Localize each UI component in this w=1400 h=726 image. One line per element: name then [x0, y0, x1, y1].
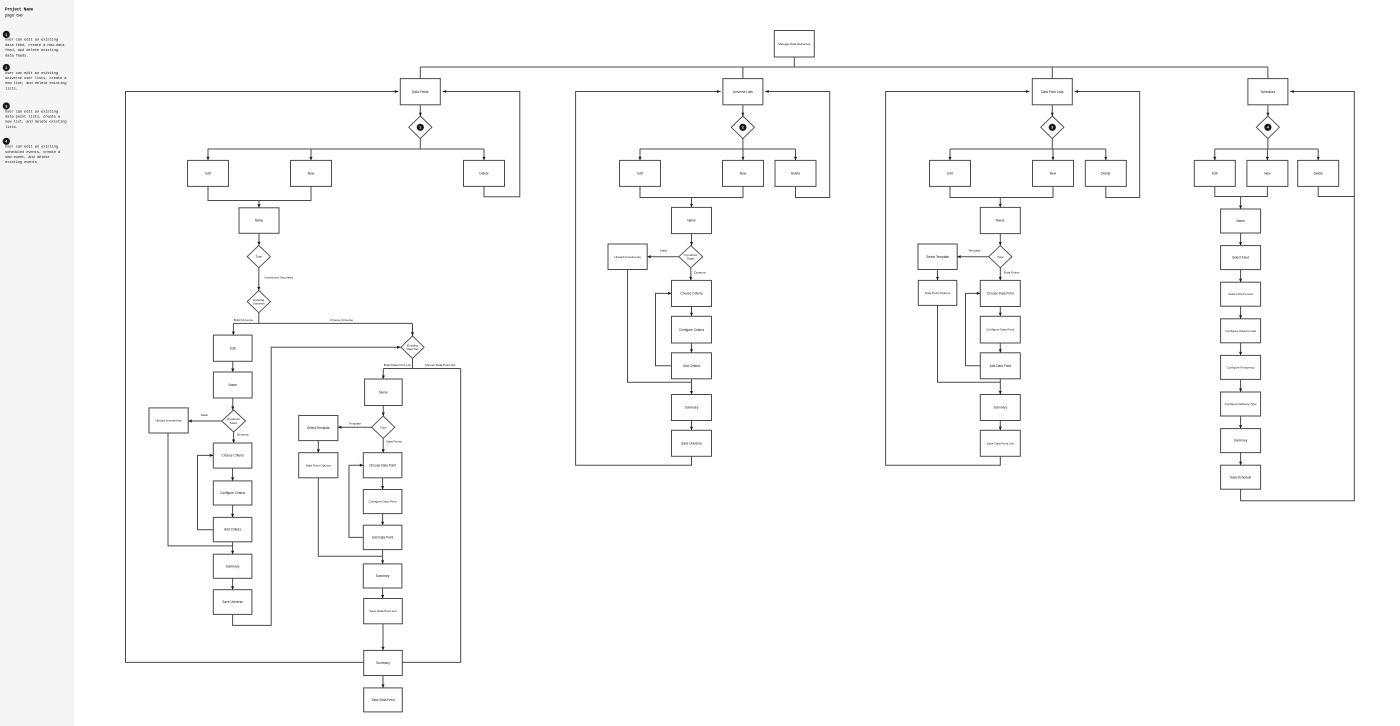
- sidebar note marker 4: [3, 138, 9, 144]
- svg-text:Summary: Summary: [376, 574, 390, 578]
- box: Summary B2: [672, 395, 712, 421]
- box: Choose Criteria B2: [672, 280, 712, 306]
- box: Choose Criteria B1: [213, 443, 252, 468]
- box: Select Template B3: [918, 244, 957, 270]
- decision: Type dpl B1: [372, 416, 395, 438]
- box: Save Data Feed B1: [364, 688, 403, 712]
- wire: universe split bar: [233, 322, 412, 324]
- svg-text:Configure Criteria: Configure Criteria: [679, 328, 704, 332]
- wire: Template to Select Template B1: [338, 426, 372, 429]
- box: New B3: [1033, 160, 1074, 186]
- wire: merge B3 to Name: [999, 198, 1002, 208]
- wire: Data Point Lists to decision B3: [1051, 105, 1054, 116]
- decision: Existing Data Set: [401, 336, 424, 359]
- edge label: Choose Universe: [330, 318, 353, 322]
- svg-text:Type: Type: [255, 255, 262, 259]
- wire: diamond B2 down: [742, 139, 744, 149]
- svg-text:Data Point Options: Data Point Options: [925, 291, 951, 295]
- wire: Existing Data Set down: [412, 359, 414, 369]
- svg-text:data feeds.: data feeds.: [5, 53, 28, 58]
- svg-text:Edit: Edit: [637, 172, 643, 176]
- box: Edit B2: [620, 160, 661, 186]
- wire: to Edit universe: [232, 323, 235, 335]
- wire: Name dpl to Type: [382, 406, 385, 417]
- wire: New B4 merge: [1241, 186, 1268, 196]
- box: Name universe B1: [213, 372, 252, 398]
- svg-text:new list, and delete existing: new list, and delete existing: [5, 120, 66, 125]
- wire: Delete B2 loop back right: [765, 90, 830, 198]
- decision: Type B1: [247, 245, 270, 267]
- svg-text:existing events.: existing events.: [5, 160, 39, 165]
- box: Summary B3: [980, 395, 1020, 421]
- svg-text:User can edit an existing: User can edit an existing: [5, 145, 58, 150]
- svg-text:Build Data Point List: Build Data Point List: [384, 363, 411, 367]
- edge label: Template B3: [968, 249, 981, 253]
- box: Summary bottom B1: [364, 650, 403, 675]
- edge label: Template B1: [349, 422, 362, 426]
- wire: Configure to Add Data Point B1: [381, 514, 384, 526]
- svg-text:Configure Criteria: Configure Criteria: [220, 491, 245, 495]
- box: Summary dpl B1: [363, 564, 402, 588]
- svg-text:Select Template: Select Template: [307, 426, 330, 430]
- wire: Add Criteria to Summary B1: [231, 542, 234, 554]
- wire: chain B4 to Configure Frequency: [1239, 343, 1242, 356]
- wire: to New B4: [1266, 149, 1269, 160]
- wire: Add Criteria loop B1: [198, 454, 214, 530]
- wire: Add Data Point loop B1: [349, 464, 363, 538]
- box: Configure Criteria B1: [213, 481, 252, 505]
- edge label: Choose Data Point List: [425, 363, 456, 367]
- wire: Summary to Save Universe B1: [231, 578, 234, 589]
- edge label: Data Points B1: [386, 440, 402, 444]
- marker 3 in diamond B3: [1049, 124, 1055, 130]
- box: Upload Investments B2: [608, 244, 647, 270]
- box: Summary B4: [1221, 429, 1261, 453]
- decision diamond B3: [1041, 116, 1064, 139]
- svg-text:New: New: [1050, 172, 1057, 176]
- wire: to Edit B2: [639, 149, 642, 160]
- box: Edit B1: [188, 160, 229, 186]
- svg-text:Save Data Point List: Save Data Point List: [987, 441, 1014, 445]
- wire: Name B2 to Dynamic/Static: [690, 234, 693, 246]
- wire: diamond B1 down: [419, 139, 421, 149]
- wire: Summary bottom loop back to Data Feeds left: [126, 90, 399, 662]
- svg-text:Data Point Lists: Data Point Lists: [1041, 90, 1064, 94]
- svg-text:new list, and delete existing: new list, and delete existing: [5, 81, 66, 86]
- wire: Summary to Save Universe B2: [690, 421, 693, 431]
- svg-text:Edit: Edit: [947, 172, 953, 176]
- edge label: Build Data Point List: [384, 363, 411, 367]
- box: New B4: [1247, 160, 1288, 186]
- sidebar note 2 text: [5, 71, 67, 92]
- svg-text:Configure Data Point: Configure Data Point: [986, 328, 1014, 332]
- wire: Name B1 to Type: [257, 233, 260, 245]
- wire: Choose to Configure Data Point B1: [381, 478, 384, 490]
- svg-text:Edit: Edit: [1212, 172, 1218, 176]
- box: Name dpl B1: [365, 379, 403, 406]
- wire: trunk drop to Data Feeds: [419, 67, 421, 79]
- svg-text:Choose Criteria: Choose Criteria: [680, 292, 702, 296]
- svg-text:Choose Data Point List: Choose Data Point List: [425, 363, 456, 367]
- box: Save Data Point List B3: [980, 430, 1020, 456]
- svg-text:data point lists, create a: data point lists, create a: [5, 115, 61, 120]
- svg-text:New: New: [308, 172, 315, 176]
- box: Configure Data Point B1: [363, 490, 402, 514]
- wire: Edit B4 merge: [1215, 186, 1241, 196]
- box: Data Point Options B3: [918, 280, 957, 305]
- svg-text:feed, and delete existing: feed, and delete existing: [5, 48, 58, 53]
- wire: Choose Universe drop: [411, 323, 414, 335]
- svg-text:Choose Universe: Choose Universe: [330, 318, 353, 322]
- decision diamond B4: [1256, 116, 1279, 139]
- svg-text:Data Points: Data Points: [386, 440, 402, 444]
- edge label: Static B1: [201, 413, 209, 417]
- box: Select Template B1: [299, 416, 338, 441]
- svg-text:1: 1: [419, 126, 421, 130]
- wire: New B3 merge: [1000, 186, 1053, 197]
- svg-text:Delete: Delete: [791, 172, 800, 176]
- wire: split bar B2: [640, 148, 796, 150]
- svg-text:Dynamic: Dynamic: [237, 432, 249, 436]
- svg-text:lists.: lists.: [5, 86, 18, 91]
- svg-text:lists.: lists.: [5, 125, 18, 130]
- wire: Edit B2 merge: [640, 186, 692, 197]
- box: Manage Data Deliveries: [774, 31, 814, 58]
- box: Name B4: [1221, 209, 1261, 233]
- svg-text:Name: Name: [379, 390, 388, 394]
- wire: Edit universe to Name: [231, 361, 234, 372]
- wire: to New B3: [1052, 149, 1055, 160]
- box: Universe Lists: [723, 79, 763, 105]
- box: Name B2: [672, 207, 712, 233]
- svg-text:Data Points: Data Points: [1004, 271, 1020, 275]
- wire: trunk drop to Data Point Lists: [1051, 67, 1053, 79]
- wire: Save Data Point List B3 loop back left: [886, 90, 1030, 465]
- svg-text:Select Template: Select Template: [926, 255, 949, 259]
- wire: chain B4 to Configure Delivery Type: [1239, 379, 1242, 392]
- svg-text:Add Criteria: Add Criteria: [683, 364, 700, 368]
- svg-text:Select Feed: Select Feed: [1232, 256, 1249, 260]
- wire: Data Points to Choose Data Point B3: [999, 268, 1002, 281]
- wire: Data Feeds to decision B1: [419, 105, 422, 116]
- wire: Static to Upload Investments B1: [188, 419, 222, 422]
- svg-text:new event, and delete: new event, and delete: [5, 155, 50, 160]
- wire: Choose to Configure Criteria B2: [690, 307, 693, 317]
- marker 4 in diamond B4: [1265, 124, 1271, 130]
- svg-text:Name: Name: [1236, 219, 1245, 223]
- wire: diamond B4 down: [1267, 139, 1269, 149]
- svg-text:New: New: [1264, 172, 1271, 176]
- wire: split bar B3: [950, 148, 1106, 150]
- sidebar note 3 text: [5, 109, 66, 130]
- wire: Save Universe loop to Existing Data Set: [233, 346, 401, 626]
- svg-text:Name: Name: [687, 219, 696, 223]
- wire: Schedules to decision B4: [1266, 105, 1269, 116]
- box: Add Criteria B2: [672, 353, 712, 379]
- box: Delete B4: [1298, 160, 1339, 186]
- wire: Save Universe B2 loop back to Universe Lists left: [576, 90, 721, 465]
- sidebar background: [0, 0, 74, 726]
- wire: diamond B3 down: [1051, 139, 1053, 149]
- svg-text:Name: Name: [996, 219, 1005, 223]
- svg-text:User can edit an existing: User can edit an existing: [5, 38, 58, 43]
- svg-text:Configure Data Format: Configure Data Format: [1225, 329, 1256, 333]
- wire: Choose Data Point List path: [402, 369, 460, 663]
- svg-text:User can edit an existing: User can edit an existing: [5, 71, 58, 76]
- box: Choose Data Point B1: [363, 453, 402, 478]
- svg-text:Type: Type: [380, 425, 387, 429]
- svg-text:Save Schedule: Save Schedule: [1230, 475, 1252, 479]
- wire: Summary to Save Data Point List B3: [999, 421, 1002, 431]
- wire: to Edit B4: [1213, 149, 1216, 160]
- svg-text:Select File Format: Select File Format: [1228, 292, 1253, 296]
- marker 1 in diamond B1: [417, 124, 423, 130]
- edge label: Data Points B3: [1004, 271, 1020, 275]
- box: Edit B3: [930, 160, 971, 186]
- box: Edit universe B1: [213, 335, 252, 361]
- box: Name B3: [980, 207, 1020, 233]
- wire: Upload Investments join B1: [168, 433, 233, 546]
- box: Configure Data Format B4: [1221, 319, 1261, 343]
- svg-text:Data Set: Data Set: [406, 347, 418, 351]
- decision: Type B3: [989, 246, 1012, 268]
- svg-text:Template: Template: [349, 422, 362, 426]
- box: Configure Frequency B4: [1221, 355, 1261, 379]
- svg-text:Type: Type: [997, 255, 1004, 259]
- decision: Dynamic/Static B2: [679, 246, 703, 268]
- svg-text:Summary: Summary: [993, 406, 1007, 410]
- wire: Add Criteria loop B2: [656, 292, 672, 366]
- wire: merge B2 to Name: [690, 198, 693, 208]
- wire: Save Data Point List to Summary bottom: [381, 624, 384, 651]
- wire: trunk drop to Schedules: [1267, 67, 1269, 79]
- wire: Upload Investments join B2: [628, 270, 692, 383]
- box: Configure Data Point B3: [980, 316, 1020, 343]
- edge label: Investment Securities: [265, 276, 294, 280]
- wire: Dynamic to Choose Criteria B2: [689, 268, 692, 281]
- svg-text:Summary: Summary: [1234, 439, 1248, 443]
- svg-text:Dynamic: Dynamic: [694, 271, 706, 275]
- box: Add Data Point B1: [363, 525, 402, 549]
- edge label: Static B2: [660, 249, 668, 253]
- sidebar note marker 2: [3, 64, 9, 70]
- wire: to New B2: [742, 149, 745, 160]
- wire: Edit B3 merge: [950, 186, 1000, 197]
- svg-text:4: 4: [1267, 126, 1269, 130]
- wire: merge B1 to Name: [257, 201, 260, 208]
- box: New B1: [291, 160, 332, 186]
- svg-text:Delete: Delete: [1314, 172, 1323, 176]
- svg-text:Summary: Summary: [226, 564, 240, 568]
- svg-text:Delete: Delete: [479, 172, 488, 176]
- sidebar note marker 3: [3, 103, 9, 109]
- svg-text:Data Point Options: Data Point Options: [306, 463, 332, 467]
- wire: trunk horizontal: [420, 66, 1268, 68]
- svg-text:Edit: Edit: [230, 346, 236, 350]
- box: Delete B2: [775, 160, 816, 186]
- edge label: Dynamic B1: [237, 432, 249, 436]
- wire: New B2 merge: [692, 186, 744, 197]
- svg-text:Summary: Summary: [376, 661, 390, 665]
- svg-text:Upload Investments: Upload Investments: [155, 419, 182, 423]
- wire: Delete B1 loop back to Data Feeds right: [443, 90, 520, 197]
- svg-text:Save Data Feed: Save Data Feed: [371, 698, 394, 702]
- wire: Add Data Point to Summary B3: [999, 379, 1002, 395]
- wire: to Name dpl: [382, 369, 385, 380]
- box: Configure Criteria B2: [672, 316, 712, 343]
- box: Summary universe B1: [213, 554, 252, 578]
- wire: Template to Select Template B3: [957, 255, 989, 258]
- edge label: Build Universe: [234, 318, 254, 322]
- wire: Manage Data Deliveries to trunk: [793, 57, 795, 67]
- box: Data Point Options B1: [299, 453, 338, 478]
- svg-text:Build Universe: Build Universe: [234, 318, 254, 322]
- svg-text:Configure Delivery Type: Configure Delivery Type: [1225, 402, 1257, 406]
- box: Data Point Lists: [1032, 79, 1072, 105]
- svg-text:Universe Lists: Universe Lists: [733, 90, 753, 94]
- svg-text:Static: Static: [230, 421, 238, 425]
- box: Select File Format B4: [1221, 282, 1261, 306]
- svg-text:Static: Static: [687, 257, 695, 261]
- svg-text:Add Data Point: Add Data Point: [990, 364, 1012, 368]
- wire: Name universe to Dynamic/Static: [231, 398, 234, 410]
- wire: Data Point Options join B3: [938, 305, 1001, 382]
- svg-text:Add Criteria: Add Criteria: [224, 528, 241, 532]
- wire: Configure to Add Data Point B3: [999, 343, 1002, 353]
- box: Save Schedule B4: [1221, 465, 1261, 489]
- sidebar note 1 text: [5, 38, 65, 59]
- wire: Add Criteria to Summary B2: [690, 379, 693, 395]
- wire: Choose to Configure Criteria B1: [231, 468, 234, 481]
- svg-text:Manage Data Deliveries: Manage Data Deliveries: [778, 42, 811, 46]
- svg-text:Save Data Point List: Save Data Point List: [369, 609, 396, 613]
- wire: Select Template to Data Point Options B3: [936, 270, 939, 281]
- wire: to Delete B1: [482, 149, 485, 160]
- wire: to Edit B3: [949, 149, 952, 160]
- marker 2 in diamond B2: [740, 124, 746, 130]
- svg-text:Static: Static: [660, 249, 668, 253]
- box: Select Feed B4: [1221, 246, 1261, 270]
- wire: to Delete B3: [1104, 149, 1107, 160]
- wire: Configure to Add Criteria B1: [231, 505, 234, 517]
- svg-text:scheduled events, create a: scheduled events, create a: [5, 150, 61, 155]
- box: Name B1: [239, 208, 279, 234]
- box: New B2: [723, 160, 764, 186]
- svg-text:Save Universe: Save Universe: [222, 600, 243, 604]
- svg-text:Configure Frequency: Configure Frequency: [1227, 365, 1256, 369]
- svg-text:Upload Investments: Upload Investments: [614, 255, 641, 259]
- wire: Existing Universe down: [258, 313, 260, 324]
- edge label: Dynamic B2: [694, 271, 706, 275]
- svg-text:Configure Data Point: Configure Data Point: [369, 500, 397, 504]
- svg-text:3: 3: [5, 104, 7, 108]
- wire: to New B1: [309, 149, 312, 160]
- box: Delete B1: [464, 160, 505, 186]
- wire: Delete B3 loop back right: [1075, 90, 1140, 198]
- wire: merge B4 to Name: [1239, 197, 1242, 210]
- decision diamond B2: [731, 116, 754, 139]
- svg-text:Add Data Point: Add Data Point: [372, 536, 394, 540]
- decision diamond B1: [409, 116, 432, 139]
- box: Edit B4: [1194, 160, 1235, 186]
- wire: New B1 merge: [259, 186, 311, 200]
- wire: chain B4 to Configure Data Format: [1239, 306, 1242, 319]
- svg-text:Choose Data Point: Choose Data Point: [987, 292, 1014, 296]
- wire: Summary to Save Data Point List B1: [381, 588, 384, 599]
- svg-text:Project Name: Project Name: [5, 7, 34, 12]
- box: Configure Delivery Type B4: [1221, 392, 1261, 416]
- svg-text:Static: Static: [201, 413, 209, 417]
- wire: Select Template to Data Point Options B1: [317, 441, 320, 453]
- wire: to Edit B1: [206, 149, 209, 160]
- box: Choose Data Point B3: [980, 280, 1020, 306]
- svg-text:Template: Template: [968, 249, 981, 253]
- wire: Add Data Point loop B3: [966, 292, 981, 366]
- box: Save Universe B2: [672, 430, 712, 456]
- wire: Name B3 to Type: [999, 234, 1002, 246]
- sidebar subtitle: page two: [5, 15, 23, 19]
- svg-text:Schedules: Schedules: [1260, 90, 1275, 94]
- wire: chain B4 to Save Schedule: [1239, 453, 1242, 466]
- sidebar note marker 1: [3, 31, 9, 37]
- svg-text:Choose Criteria: Choose Criteria: [222, 454, 244, 458]
- wire: split bar B1: [208, 148, 484, 150]
- svg-text:Name: Name: [255, 219, 264, 223]
- svg-text:Investment Securities: Investment Securities: [265, 276, 294, 280]
- wire: Dynamic to Choose Criteria B1: [232, 432, 235, 443]
- wire: Edit B1 merge: [208, 186, 259, 200]
- wire: Summary bottom to Save Data Feed: [381, 676, 384, 688]
- svg-text:Save Universe: Save Universe: [681, 441, 702, 445]
- svg-text:Name: Name: [229, 383, 238, 387]
- svg-text:User can edit an existing: User can edit an existing: [5, 109, 58, 114]
- box: Schedules: [1248, 79, 1288, 105]
- wire: Delete B4 join right loop: [1318, 186, 1354, 196]
- svg-text:Data Feeds: Data Feeds: [412, 90, 429, 94]
- wire: Type B1 to Existing Universe: [257, 268, 260, 291]
- svg-text:3: 3: [1051, 126, 1053, 130]
- box: Save Data Point List B1: [364, 599, 403, 624]
- svg-text:1: 1: [5, 33, 7, 37]
- decision: Dynamic/Static B1: [222, 410, 246, 432]
- sidebar note 4 text: [5, 145, 61, 166]
- wire: Static to Upload Investments B2: [647, 255, 679, 258]
- svg-text:data feed, create a new data: data feed, create a new data: [5, 43, 65, 48]
- box: Add Criteria B1: [213, 517, 252, 541]
- decision: Existing Universe: [247, 290, 270, 312]
- svg-text:universe user lists, create a: universe user lists, create a: [5, 76, 67, 81]
- wire: chain B4 to Select File Format: [1239, 270, 1242, 283]
- svg-text:Edit: Edit: [205, 172, 211, 176]
- box: Add Data Point B3: [980, 353, 1020, 379]
- box: Delete B3: [1085, 160, 1126, 186]
- wire: to Delete B2: [794, 149, 797, 160]
- svg-text:4: 4: [5, 140, 7, 144]
- wire: trunk drop to Universe Lists: [742, 67, 744, 79]
- wire: Add Data Point to Summary B1: [381, 550, 384, 564]
- wire: Data Points to Choose Data Point B1: [382, 438, 385, 452]
- svg-text:Summary: Summary: [685, 406, 699, 410]
- wire: Universe Lists to decision B2: [741, 105, 744, 116]
- svg-text:Delete: Delete: [1101, 172, 1110, 176]
- box: Save Universe B1: [213, 590, 252, 615]
- svg-text:2: 2: [5, 66, 7, 70]
- svg-text:page two: page two: [5, 15, 23, 19]
- sidebar title: Project Name: [5, 7, 34, 12]
- wire: Configure to Add Criteria B2: [690, 343, 693, 353]
- svg-text:Universe: Universe: [253, 302, 265, 306]
- wire: chain B4 to Select Feed: [1239, 233, 1242, 246]
